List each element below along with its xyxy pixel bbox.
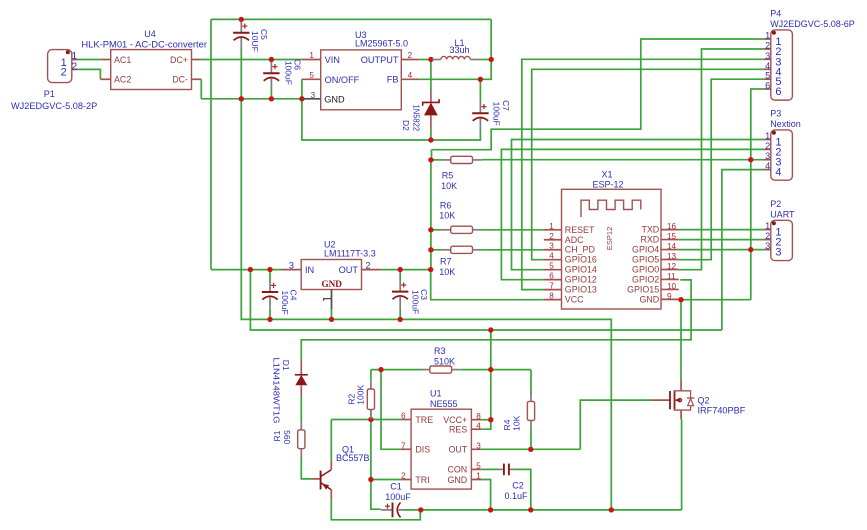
svg-text:2: 2 — [765, 231, 770, 241]
svg-text:6: 6 — [549, 272, 554, 281]
wire U2 IN row — [211, 269, 281, 271]
wire C7 top to FB — [479, 79, 481, 102]
P3 pin 4 stub — [764, 169, 771, 171]
wire R1 bottom to Q1 base — [301, 457, 311, 479]
svg-text:GND: GND — [321, 279, 342, 289]
junction — [428, 57, 433, 62]
svg-text:100uF: 100uF — [491, 102, 501, 126]
svg-text:14: 14 — [667, 242, 677, 251]
P4 pin 5 stub — [764, 78, 771, 80]
wire GND bus mid — [241, 99, 611, 510]
X1 pin 6 stub — [544, 279, 562, 281]
svg-text:U1: U1 — [430, 389, 442, 399]
capacitor C3 — [392, 281, 408, 308]
junction — [378, 367, 383, 372]
svg-text:1: 1 — [765, 31, 770, 41]
svg-text:4: 4 — [765, 61, 770, 71]
junction — [267, 267, 272, 272]
svg-text:100uF: 100uF — [410, 290, 420, 314]
wire Q2 source to GND — [681, 419, 683, 510]
U1 pin 1 stub — [471, 479, 481, 481]
X1 pin 4 stub — [544, 259, 562, 261]
U1 pin 6 stub — [401, 419, 411, 421]
svg-text:LM1117T-3.3: LM1117T-3.3 — [324, 249, 376, 259]
junction — [368, 417, 373, 422]
svg-text:GPIO16: GPIO16 — [565, 255, 597, 265]
svg-text:GPIO14: GPIO14 — [565, 265, 597, 275]
wire ON/OFF to GND — [302, 79, 431, 140]
P3 pin 3 stub — [764, 159, 771, 161]
U1 pin 8 stub — [471, 419, 481, 421]
timer U1 NE555 — [411, 409, 471, 489]
svg-text:TXD: TXD — [641, 225, 659, 235]
svg-text:ON/OFF: ON/OFF — [325, 75, 360, 85]
svg-text:Nextion: Nextion — [770, 119, 801, 129]
svg-text:4: 4 — [765, 161, 770, 171]
wire C3 top — [399, 270, 401, 281]
svg-text:X1: X1 — [601, 170, 612, 180]
wire TRE row — [331, 419, 401, 421]
resistor R7 — [442, 246, 482, 253]
resistor R1 — [298, 421, 305, 458]
svg-text:WJ2EDGVC-5.08-2P: WJ2EDGVC-5.08-2P — [11, 101, 97, 111]
svg-text:3: 3 — [311, 91, 316, 100]
inductor L1 — [432, 56, 480, 59]
svg-text:CH_PD: CH_PD — [565, 245, 595, 255]
svg-text:ESP-12: ESP-12 — [592, 180, 623, 190]
wire GPIO2 to D1 line — [301, 280, 691, 360]
U2 GND pin — [324, 290, 332, 310]
junction — [398, 317, 403, 322]
diode D1 — [295, 360, 308, 397]
wire 5V distribution bus — [250, 270, 722, 330]
svg-text:D2: D2 — [401, 120, 411, 131]
svg-text:GPIO0: GPIO0 — [632, 264, 659, 274]
svg-text:LM2596T-5.0: LM2596T-5.0 — [355, 39, 408, 49]
regulator U3 — [321, 50, 402, 110]
svg-text:12: 12 — [667, 262, 677, 271]
junction — [488, 507, 493, 512]
svg-text:2: 2 — [408, 51, 413, 60]
svg-text:HLK-PM01 - AC-DC-converter: HLK-PM01 - AC-DC-converter — [81, 40, 207, 50]
X1 pin 11 stub — [661, 278, 679, 280]
svg-text:GPIO4: GPIO4 — [632, 245, 659, 255]
wire chain 3V3 vertical — [431, 150, 433, 160]
svg-text:10UF: 10UF — [250, 31, 260, 52]
wire D1 bottom to R1 — [300, 397, 302, 422]
svg-text:U4: U4 — [144, 29, 156, 39]
P3 pin 1 stub — [764, 139, 771, 141]
U3 pin OUTPUT stub — [401, 59, 419, 61]
wire 5V riser left — [210, 19, 212, 269]
wire R6 left — [431, 229, 442, 231]
svg-text:OUTPUT: OUTPUT — [361, 55, 399, 65]
wire P4 pin6 down — [751, 89, 764, 300]
junction — [368, 477, 373, 482]
U4 pin AC1 stub — [102, 59, 111, 61]
P4 first pin dot — [772, 31, 776, 35]
wire bottom GND bus — [421, 509, 682, 511]
svg-text:C7: C7 — [501, 100, 511, 111]
resistor R4 — [527, 392, 534, 430]
svg-text:10K: 10K — [512, 415, 522, 430]
X1 pin 2 stub — [544, 239, 562, 241]
wire VCC riser NE555 — [490, 330, 492, 420]
wire ESP GND pin9 node — [679, 299, 751, 301]
svg-text:GND: GND — [324, 94, 345, 104]
wire C1 right — [404, 509, 421, 511]
connector P2 — [771, 220, 793, 260]
svg-text:GPIO13: GPIO13 — [565, 285, 597, 295]
junction — [299, 96, 304, 101]
wire R7 left — [431, 249, 442, 251]
X1 pin 13 stub — [661, 259, 679, 261]
svg-text:5: 5 — [765, 71, 770, 81]
junction — [269, 96, 274, 101]
P4 pin 1 stub — [764, 38, 771, 40]
wire C2 right — [516, 469, 531, 510]
svg-text:1: 1 — [476, 472, 481, 481]
wire GPIO0 riser to P4 pin2 — [679, 49, 764, 270]
svg-text:IRF740PBF: IRF740PBF — [698, 406, 746, 416]
svg-text:100uF: 100uF — [283, 61, 293, 85]
wire Q1 collector riser — [330, 420, 332, 461]
wire OUTPUT to L1 — [419, 59, 432, 61]
junction — [489, 57, 494, 62]
X1 pin 14 stub — [661, 249, 679, 251]
svg-text:ESP12: ESP12 — [605, 227, 614, 250]
svg-text:2: 2 — [765, 141, 770, 151]
svg-text:C1: C1 — [390, 482, 402, 492]
P4 pin 6 stub — [764, 88, 771, 90]
svg-text:3: 3 — [775, 247, 781, 259]
P2 pin 3 stub — [764, 249, 771, 251]
svg-text:7: 7 — [401, 442, 406, 451]
capacitor C6 — [263, 62, 279, 89]
wire C5 top lead — [240, 19, 242, 22]
resistor R6 — [442, 226, 482, 233]
U1 pin 4 stub — [471, 428, 481, 430]
svg-text:R3: R3 — [434, 346, 446, 356]
regulator U2 — [301, 260, 361, 290]
resistor R5 — [442, 156, 482, 163]
capacitor C1 — [381, 503, 404, 518]
svg-text:R7: R7 — [440, 257, 452, 267]
svg-text:11: 11 — [667, 272, 676, 281]
transistor Q1 — [312, 461, 332, 500]
resistor R2 — [367, 380, 374, 419]
svg-text:3: 3 — [765, 51, 770, 61]
svg-text:3: 3 — [549, 242, 554, 251]
P1 pin 1 stub — [72, 59, 78, 61]
svg-text:R4: R4 — [502, 419, 512, 430]
svg-text:10K: 10K — [439, 211, 455, 221]
X1 pin 15 stub — [661, 239, 679, 241]
svg-text:D1: D1 — [281, 360, 291, 371]
svg-text:VIN: VIN — [325, 55, 340, 65]
wire R7 right to CH_PD — [482, 249, 544, 251]
svg-text:1N5822: 1N5822 — [412, 105, 422, 132]
U1 pin 7 stub — [401, 448, 411, 450]
wire chain R6-R7 — [430, 230, 432, 250]
svg-text:8: 8 — [549, 292, 554, 301]
svg-text:3: 3 — [765, 241, 770, 251]
svg-text:6: 6 — [775, 86, 781, 98]
wire R4 top — [530, 370, 532, 395]
svg-text:8: 8 — [476, 412, 481, 421]
wire D2 top — [430, 60, 432, 91]
wire D2 bottom — [430, 129, 432, 140]
svg-text:6: 6 — [401, 412, 406, 421]
wire R6 right to RESET — [482, 229, 544, 231]
junction — [678, 297, 683, 302]
wire R5 left — [431, 159, 442, 161]
junction — [329, 317, 334, 322]
svg-text:OUT: OUT — [339, 265, 359, 275]
junction — [609, 507, 614, 512]
wire R2 top — [370, 370, 372, 380]
svg-text:P4: P4 — [770, 9, 781, 19]
wire R3 row left — [371, 369, 421, 371]
wire VCC+ row — [481, 419, 491, 421]
wire DC+ to VIN — [201, 59, 302, 61]
X1 pin 1 stub — [544, 229, 562, 231]
svg-text:GPIO15: GPIO15 — [627, 284, 659, 294]
svg-text:3: 3 — [765, 151, 770, 161]
X1 pin 12 stub — [661, 268, 679, 270]
X1 pin 9 stub — [661, 298, 679, 300]
svg-text:RES: RES — [449, 424, 467, 434]
svg-text:10K: 10K — [439, 267, 455, 277]
wire Q1 emitter to C1 right — [331, 499, 420, 520]
wire C3 bottom — [399, 308, 401, 320]
junction — [528, 507, 533, 512]
svg-text:ADC: ADC — [565, 235, 584, 245]
wire GND1 row — [481, 480, 490, 510]
svg-text:4: 4 — [549, 252, 554, 261]
connector P3 — [771, 130, 793, 180]
U4 pin AC2 stub — [100, 78, 110, 80]
X1 pin 3 stub — [544, 249, 562, 251]
diode D2 — [423, 91, 439, 130]
svg-text:CON: CON — [447, 465, 467, 475]
X1 pin 8 stub — [544, 299, 562, 301]
U4 pin DC- stub — [192, 78, 202, 80]
junction — [528, 447, 533, 452]
svg-text:560: 560 — [282, 430, 292, 444]
svg-text:GND: GND — [447, 475, 467, 485]
svg-text:UART: UART — [770, 209, 795, 219]
junction — [488, 327, 493, 332]
svg-text:9: 9 — [667, 292, 672, 301]
junction — [748, 247, 753, 252]
junction — [428, 247, 433, 252]
svg-text:BC557B: BC557B — [336, 453, 370, 463]
junction — [398, 267, 403, 272]
wire C7 bottom to GND node — [431, 129, 481, 140]
P2 pin 1 stub — [764, 229, 771, 231]
junction — [248, 267, 253, 272]
junction — [428, 157, 433, 162]
wire GPIO5 riser to P4 pin5 — [679, 79, 764, 260]
capacitor C7 — [472, 102, 488, 129]
wire C6 top lead — [270, 60, 272, 63]
svg-text:TRI: TRI — [415, 475, 429, 485]
svg-text:100uF: 100uF — [280, 291, 290, 315]
wire GPIO13 riser to P4 pin3 — [522, 59, 764, 289]
wire DC- down — [200, 79, 202, 99]
U2 pin IN stub — [281, 269, 301, 271]
resistor R3 — [421, 366, 461, 373]
junction — [748, 157, 753, 162]
svg-text:4: 4 — [775, 167, 781, 179]
connector P1 — [48, 50, 72, 83]
svg-text:10: 10 — [667, 282, 677, 291]
junction — [239, 96, 244, 101]
svg-text:FB: FB — [387, 75, 399, 85]
wire Q2 drain — [680, 300, 682, 381]
junction — [418, 507, 423, 512]
wire U2 OUT row — [382, 269, 431, 271]
wire FB — [419, 60, 491, 80]
wire C4 bottom — [269, 308, 271, 319]
svg-text:2: 2 — [549, 232, 554, 241]
wire TRI to C1 — [371, 420, 381, 510]
P3 first pin dot — [772, 131, 776, 135]
svg-text:DC-: DC- — [172, 75, 188, 85]
wire RES row — [481, 420, 491, 430]
svg-text:GPIO12: GPIO12 — [565, 275, 597, 285]
wire RXD to P2 pin2 — [679, 239, 764, 241]
svg-text:WJ2EDGVC-5.08-6P: WJ2EDGVC-5.08-6P — [770, 19, 855, 29]
wire P1 pin2 to AC2 — [78, 69, 101, 79]
P1 pin 2 stub — [72, 68, 78, 70]
svg-text:R6: R6 — [440, 201, 452, 211]
svg-text:1: 1 — [309, 51, 314, 60]
svg-text:4: 4 — [476, 421, 481, 430]
wire DIS riser — [381, 370, 401, 450]
svg-text:C2: C2 — [512, 481, 524, 491]
svg-text:NE555: NE555 — [430, 399, 458, 409]
U1 pin 2 stub — [401, 479, 411, 481]
wire GPIO16 riser to P4 pin4 — [532, 69, 764, 259]
svg-text:2: 2 — [71, 61, 77, 73]
svg-text:2: 2 — [61, 67, 67, 79]
svg-text:DC+: DC+ — [170, 55, 188, 65]
svg-text:TRE: TRE — [415, 415, 433, 425]
capacitor C4 — [262, 281, 278, 308]
wire L1 to node — [480, 59, 491, 61]
svg-text:RXD: RXD — [640, 235, 659, 245]
wire R5 right to P3 pin3 — [482, 159, 764, 161]
wire OUT to Q2 gate — [580, 400, 651, 449]
svg-text:GPIO5: GPIO5 — [632, 255, 659, 265]
wire chain R5-R6 — [430, 160, 432, 230]
svg-text:0.1uF: 0.1uF — [504, 491, 528, 501]
wire P1 pin1 to AC1 — [78, 59, 102, 61]
svg-text:P2: P2 — [770, 199, 781, 209]
svg-text:L1N4148WT1G: L1N4148WT1G — [271, 358, 281, 424]
wire OUT row NE555 — [481, 448, 580, 450]
P4 pin 2 stub — [764, 48, 771, 50]
svg-text:GND: GND — [639, 294, 659, 304]
svg-text:DIS: DIS — [415, 445, 430, 455]
X1 pin 7 stub — [544, 289, 562, 291]
wire R3 row right — [461, 369, 531, 371]
svg-text:1: 1 — [765, 221, 770, 231]
svg-text:3: 3 — [289, 260, 294, 270]
module X1 ESP-12 — [562, 189, 662, 309]
P1 first pin dot — [66, 50, 70, 54]
X1 pin 10 stub — [661, 288, 679, 290]
svg-text:AC2: AC2 — [114, 75, 131, 85]
P4 pin 4 stub — [764, 68, 771, 70]
U3 pin ON/OFF stub — [302, 78, 321, 80]
wire R2 bottom TRE row — [370, 410, 372, 420]
svg-text:R5: R5 — [442, 171, 454, 181]
U3 pin FB stub — [401, 78, 419, 80]
P2 first pin dot — [772, 221, 776, 225]
junction — [428, 267, 433, 272]
svg-text:2: 2 — [401, 472, 406, 481]
AC-DC converter U4 — [111, 50, 192, 90]
junction — [488, 367, 493, 372]
svg-text:2: 2 — [366, 260, 371, 270]
junction — [269, 57, 274, 62]
capacitor C2 — [498, 464, 516, 476]
wire 3V3 S-bend to P4 pin1 — [432, 39, 764, 150]
svg-text:16: 16 — [667, 222, 677, 231]
junction — [239, 17, 244, 22]
svg-text:5: 5 — [309, 71, 314, 80]
svg-text:2: 2 — [765, 41, 770, 51]
svg-text:6: 6 — [765, 81, 770, 91]
svg-text:IN: IN — [305, 265, 314, 275]
svg-text:OUT: OUT — [448, 445, 467, 455]
svg-text:15: 15 — [667, 232, 677, 241]
wire 3V3 to ESP VCC — [431, 270, 544, 300]
mosfet Q2 — [651, 381, 694, 419]
svg-text:1: 1 — [765, 131, 770, 141]
wire CON row — [481, 468, 497, 470]
junction — [478, 77, 483, 82]
svg-text:P1: P1 — [44, 89, 55, 99]
svg-text:5: 5 — [549, 262, 554, 271]
wire U2 GND to bus — [331, 309, 333, 319]
wire TXD to P2 pin1 — [679, 229, 764, 231]
U1 pin 5 stub — [471, 468, 481, 470]
svg-text:3: 3 — [476, 442, 481, 451]
svg-text:1: 1 — [549, 222, 554, 231]
wire GND bus upper — [201, 98, 302, 100]
svg-text:13: 13 — [667, 252, 677, 261]
U1 pin 3 stub — [471, 448, 481, 450]
junction — [267, 317, 272, 322]
X1 antenna — [581, 200, 641, 217]
wire C5 bottom lead — [240, 49, 242, 99]
svg-text:100K: 100K — [355, 385, 365, 405]
svg-text:510K: 510K — [434, 357, 455, 367]
X1 pin 16 stub — [661, 229, 679, 231]
wire GPIO14 riser to P3 pin1 — [512, 140, 764, 270]
wire 5V top bus — [211, 18, 491, 20]
P3 pin 2 stub — [764, 148, 771, 150]
svg-text:5: 5 — [476, 462, 481, 471]
wire TRI row — [371, 479, 401, 481]
svg-text:GPIO2: GPIO2 — [632, 274, 659, 284]
wire C6 bottom lead — [270, 89, 272, 99]
junction — [428, 227, 433, 232]
